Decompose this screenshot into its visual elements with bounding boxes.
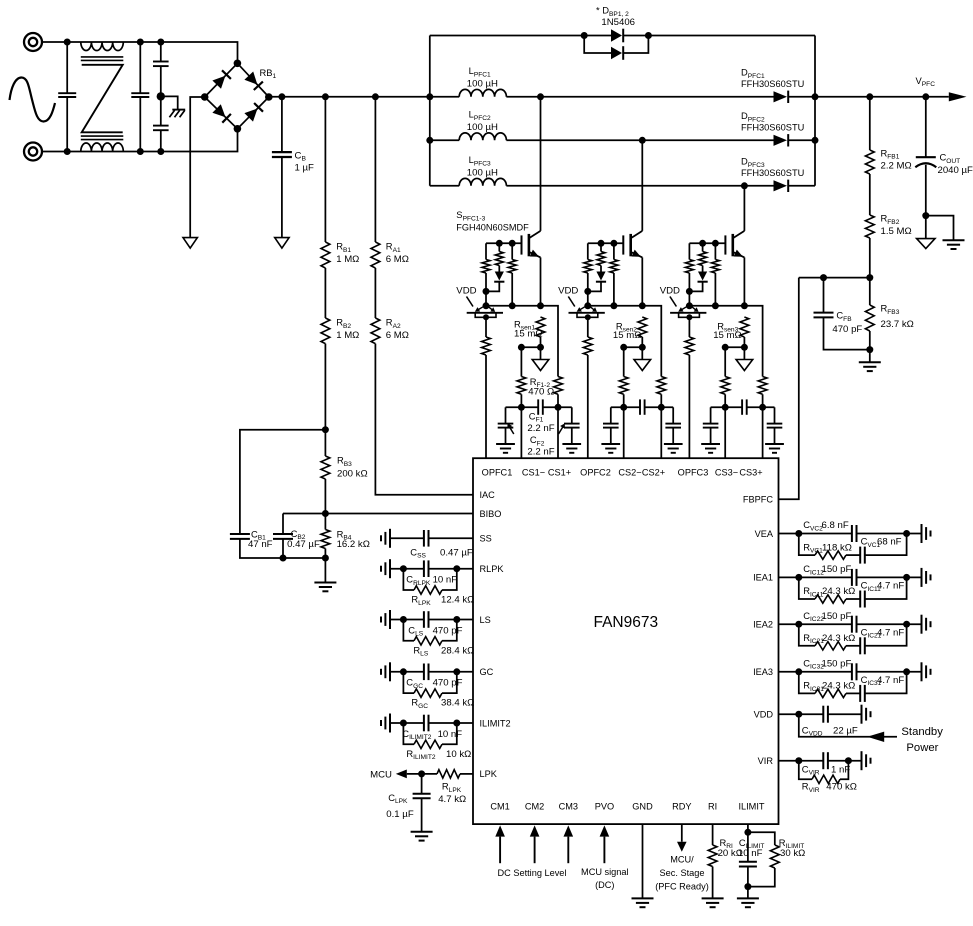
svg-text:OPFC1: OPFC1 bbox=[482, 467, 513, 477]
svg-text:6 MΩ: 6 MΩ bbox=[386, 330, 409, 341]
svg-text:DC Setting Level: DC Setting Level bbox=[498, 868, 567, 878]
svg-text:VEA: VEA bbox=[755, 529, 774, 539]
svg-text:OPFC3: OPFC3 bbox=[678, 467, 709, 477]
svg-text:2.2 MΩ: 2.2 MΩ bbox=[881, 161, 912, 172]
svg-text:4.7 nF: 4.7 nF bbox=[877, 627, 904, 638]
svg-text:CM3: CM3 bbox=[559, 802, 578, 812]
svg-text:4.7 nF: 4.7 nF bbox=[877, 581, 904, 592]
svg-text:10 nF: 10 nF bbox=[433, 575, 458, 586]
svg-text:FGH40N60SMDF: FGH40N60SMDF bbox=[456, 223, 529, 234]
svg-text:150 pF: 150 pF bbox=[822, 611, 852, 622]
svg-text:FAN9673: FAN9673 bbox=[593, 614, 658, 631]
svg-text:470 pF: 470 pF bbox=[433, 678, 463, 689]
svg-text:OPFC2: OPFC2 bbox=[580, 467, 611, 477]
svg-text:(DC): (DC) bbox=[595, 880, 614, 890]
svg-text:LPK: LPK bbox=[480, 769, 498, 779]
svg-text:47 nF: 47 nF bbox=[248, 539, 273, 550]
svg-text:MCU: MCU bbox=[370, 770, 392, 781]
svg-text:0.1 µF: 0.1 µF bbox=[386, 809, 414, 820]
svg-text:ILIMIT: ILIMIT bbox=[738, 802, 764, 812]
svg-text:CM1: CM1 bbox=[490, 802, 509, 812]
svg-text:15 mΩ: 15 mΩ bbox=[514, 329, 543, 340]
svg-text:2.2 nF: 2.2 nF bbox=[527, 423, 554, 434]
svg-text:CM2: CM2 bbox=[525, 802, 544, 812]
svg-text:22 µF: 22 µF bbox=[833, 725, 858, 736]
svg-text:30 kΩ: 30 kΩ bbox=[780, 848, 805, 859]
svg-text:2040 µF: 2040 µF bbox=[938, 165, 973, 176]
svg-text:IEA2: IEA2 bbox=[753, 620, 773, 630]
svg-text:12.4 kΩ: 12.4 kΩ bbox=[441, 595, 474, 606]
svg-text:Standby: Standby bbox=[901, 726, 943, 738]
svg-text:MCU/: MCU/ bbox=[670, 855, 694, 865]
svg-text:200 kΩ: 200 kΩ bbox=[337, 469, 368, 480]
svg-text:MCU signal: MCU signal bbox=[581, 867, 628, 877]
svg-text:1 MΩ: 1 MΩ bbox=[336, 330, 359, 341]
svg-text:470 Ω: 470 Ω bbox=[528, 386, 554, 397]
svg-text:IEA1: IEA1 bbox=[753, 573, 773, 583]
svg-text:CS3−: CS3− bbox=[715, 467, 738, 477]
svg-text:1.5 MΩ: 1.5 MΩ bbox=[881, 226, 912, 237]
svg-text:0.47 µF: 0.47 µF bbox=[440, 547, 473, 558]
svg-text:ILIMIT2: ILIMIT2 bbox=[480, 718, 511, 728]
svg-text:10 nF: 10 nF bbox=[738, 848, 763, 859]
svg-text:RLPK: RLPK bbox=[480, 564, 505, 574]
svg-text:CS3+: CS3+ bbox=[739, 467, 762, 477]
svg-text:VDD: VDD bbox=[456, 286, 476, 297]
svg-text:470 pF: 470 pF bbox=[433, 625, 463, 636]
svg-text:VDD: VDD bbox=[754, 710, 774, 720]
svg-text:24.3 kΩ: 24.3 kΩ bbox=[822, 681, 855, 692]
svg-text:IAC: IAC bbox=[480, 490, 496, 500]
svg-text:24.3 kΩ: 24.3 kΩ bbox=[822, 586, 855, 597]
svg-text:RDY: RDY bbox=[672, 802, 691, 812]
svg-text:24.3 kΩ: 24.3 kΩ bbox=[822, 633, 855, 644]
svg-text:FFH30S60STU: FFH30S60STU bbox=[741, 79, 804, 90]
svg-text:PVO: PVO bbox=[595, 802, 614, 812]
svg-text:100 µH: 100 µH bbox=[467, 167, 498, 178]
svg-text:VDD: VDD bbox=[660, 286, 680, 297]
svg-text:(PFC Ready): (PFC Ready) bbox=[655, 881, 709, 891]
svg-text:2.2 nF: 2.2 nF bbox=[527, 446, 554, 457]
svg-text:GC: GC bbox=[480, 667, 494, 677]
svg-text:RI: RI bbox=[708, 802, 717, 812]
svg-text:Sec. Stage: Sec. Stage bbox=[660, 868, 705, 878]
svg-text:FFH30S60STU: FFH30S60STU bbox=[741, 123, 804, 134]
svg-text:150 pF: 150 pF bbox=[822, 659, 852, 670]
svg-text:0.47 µF: 0.47 µF bbox=[287, 539, 320, 550]
svg-text:100 µH: 100 µH bbox=[467, 78, 498, 89]
svg-text:1 µF: 1 µF bbox=[295, 162, 315, 173]
svg-text:VIR: VIR bbox=[758, 756, 774, 766]
svg-text:68 nF: 68 nF bbox=[877, 537, 902, 548]
svg-text:FFH30S60STU: FFH30S60STU bbox=[741, 168, 804, 179]
svg-text:SS: SS bbox=[480, 534, 492, 544]
svg-text:CS1+: CS1+ bbox=[548, 467, 571, 477]
svg-text:470 kΩ: 470 kΩ bbox=[826, 782, 857, 793]
svg-text:100 µH: 100 µH bbox=[467, 122, 498, 133]
svg-text:CS1−: CS1− bbox=[522, 467, 545, 477]
svg-text:CS2−: CS2− bbox=[618, 467, 641, 477]
svg-text:38.4 kΩ: 38.4 kΩ bbox=[441, 698, 474, 709]
svg-text:1 nF: 1 nF bbox=[831, 765, 850, 776]
svg-text:23.7 kΩ: 23.7 kΩ bbox=[881, 319, 914, 330]
svg-text:LS: LS bbox=[480, 615, 491, 625]
svg-text:BIBO: BIBO bbox=[480, 509, 502, 519]
svg-text:1N5406: 1N5406 bbox=[601, 17, 635, 28]
svg-text:CS2+: CS2+ bbox=[642, 467, 665, 477]
svg-text:4.7 kΩ: 4.7 kΩ bbox=[438, 794, 466, 805]
svg-text:10 kΩ: 10 kΩ bbox=[446, 749, 471, 760]
svg-text:16.2 kΩ: 16.2 kΩ bbox=[337, 539, 370, 550]
svg-text:Power: Power bbox=[906, 742, 938, 754]
svg-text:150 pF: 150 pF bbox=[822, 564, 852, 575]
svg-text:IEA3: IEA3 bbox=[753, 667, 773, 677]
svg-text:6 MΩ: 6 MΩ bbox=[386, 254, 409, 265]
svg-text:FBPFC: FBPFC bbox=[743, 495, 773, 505]
svg-text:15 mΩ: 15 mΩ bbox=[713, 330, 742, 341]
svg-text:470 pF: 470 pF bbox=[832, 324, 862, 335]
svg-text:GND: GND bbox=[632, 802, 653, 812]
svg-text:VDD: VDD bbox=[558, 286, 578, 297]
svg-text:6.8 nF: 6.8 nF bbox=[822, 520, 849, 531]
svg-text:118 kΩ: 118 kΩ bbox=[822, 542, 852, 553]
svg-text:10 nF: 10 nF bbox=[438, 729, 463, 740]
svg-text:15 mΩ: 15 mΩ bbox=[613, 330, 642, 341]
svg-text:28.4 kΩ: 28.4 kΩ bbox=[441, 645, 474, 656]
svg-text:1 MΩ: 1 MΩ bbox=[336, 254, 359, 265]
svg-text:4.7 nF: 4.7 nF bbox=[877, 675, 904, 686]
